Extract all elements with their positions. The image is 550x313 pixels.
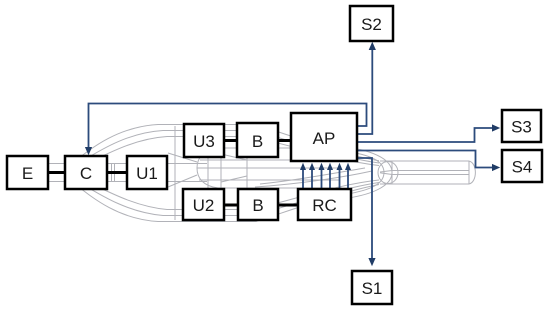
tail dome ellipse bbox=[378, 162, 398, 184]
wire E-C bbox=[48, 171, 65, 174]
wire B-RC bbox=[278, 204, 298, 207]
pod interior seam 3 bbox=[199, 179, 340, 181]
svg-text:RC: RC bbox=[312, 196, 337, 215]
svg-text:C: C bbox=[80, 164, 92, 183]
box S1 bbox=[352, 271, 392, 304]
box S3 bbox=[502, 110, 541, 142]
box S4 bbox=[502, 150, 542, 182]
tail boom cap base vertical bbox=[468, 161, 470, 184]
hull lower line 3 bbox=[74, 176, 379, 210]
svg-text:S2: S2 bbox=[361, 15, 382, 34]
pod diagonal detail 2 bbox=[221, 176, 247, 182]
center pod top bbox=[218, 147, 342, 149]
arrowhead into S1 bbox=[368, 258, 375, 266]
box U1 bbox=[127, 156, 167, 189]
wire U3-B bbox=[224, 139, 237, 142]
tail closure inner arc bbox=[350, 152, 384, 194]
box B top bbox=[237, 123, 278, 157]
svg-text:S4: S4 bbox=[512, 158, 533, 177]
box AP bbox=[291, 113, 357, 161]
box RC bbox=[298, 189, 351, 220]
tail seam lower bbox=[380, 173, 469, 175]
wire U2-B bbox=[224, 204, 238, 207]
aft body seam 1 bbox=[260, 168, 365, 184]
arrowhead into S4 bbox=[492, 164, 500, 171]
hull lower line 1 bbox=[70, 180, 379, 222]
pod interior seam 1 bbox=[200, 159, 340, 161]
pod interior seam 2 bbox=[197, 167, 340, 169]
wire RC to AP 3 bbox=[321, 169, 323, 189]
pod vertical rib 2 bbox=[220, 148, 222, 188]
wire RC to AP 5 bbox=[339, 169, 341, 189]
wire RC to AP 6 bbox=[347, 169, 349, 189]
wire AP to S2 bbox=[357, 49, 372, 134]
arrowhead RC-AP 6 bbox=[345, 163, 351, 170]
arrowhead RC-AP 4 bbox=[327, 163, 333, 170]
pod vertical rib 3 bbox=[246, 148, 248, 188]
hull upper line 3 bbox=[74, 137, 379, 170]
tail boom bottom bbox=[380, 183, 469, 185]
wire RC to AP 4 bbox=[329, 169, 331, 189]
wire B-AP bbox=[278, 139, 291, 142]
wire RC to AP 2 bbox=[311, 169, 313, 189]
tail boom end cap bbox=[469, 161, 475, 184]
arrowhead into S3 bbox=[492, 124, 500, 131]
svg-text:E: E bbox=[22, 164, 33, 183]
hull nose tip arc bbox=[67, 164, 74, 182]
box U2 bbox=[183, 189, 224, 220]
wire RC to AP 1 bbox=[302, 169, 304, 189]
nozzle lower diagonal bbox=[168, 175, 197, 187]
arrowhead into C bbox=[85, 147, 92, 155]
box S2 bbox=[350, 6, 393, 41]
hull nose midline top bbox=[48, 163, 207, 165]
center pod bottom bbox=[218, 187, 342, 189]
svg-text:B: B bbox=[252, 196, 263, 215]
wire C-U1 bbox=[107, 171, 127, 174]
hull upper line 2 bbox=[72, 131, 379, 168]
wire feedback AP to C bbox=[89, 104, 367, 149]
arrowhead RC-AP 1 bbox=[300, 163, 306, 170]
svg-text:AP: AP bbox=[313, 129, 336, 148]
arrowhead RC-AP 5 bbox=[337, 163, 343, 170]
center pod left cap bbox=[197, 148, 218, 188]
svg-text:U1: U1 bbox=[136, 164, 158, 183]
arrowhead RC-AP 3 bbox=[319, 163, 325, 170]
wire AP to S4 bbox=[357, 151, 493, 168]
tail seam upper bbox=[380, 171, 469, 173]
svg-text:U2: U2 bbox=[193, 196, 215, 215]
pod vertical rib 1 bbox=[207, 148, 209, 188]
wire AP to S1 bbox=[357, 158, 372, 259]
hull nose midline bottom bbox=[48, 181, 207, 183]
hull upper line 1 bbox=[70, 125, 379, 166]
box C bbox=[65, 156, 107, 189]
box U3 bbox=[184, 124, 224, 157]
aft body seam 2 bbox=[255, 171, 372, 187]
arrowhead RC-AP 2 bbox=[309, 163, 315, 170]
tail closure outer arc bbox=[345, 147, 392, 199]
frame station vertical bbox=[174, 126, 176, 220]
tail dome vertical bbox=[391, 162, 393, 184]
svg-text:S3: S3 bbox=[511, 118, 532, 137]
arrowhead into S2 bbox=[369, 42, 376, 50]
wire AP to S3 bbox=[357, 128, 493, 142]
pod diagonal detail 1 bbox=[221, 154, 247, 160]
cockpit frame double line a bbox=[111, 164, 113, 182]
svg-text:S1: S1 bbox=[362, 279, 383, 298]
cockpit frame double line b bbox=[114, 164, 116, 182]
hull lower line 2 bbox=[72, 178, 379, 216]
tail boom top bbox=[380, 160, 469, 162]
nozzle upper diagonal bbox=[168, 153, 197, 162]
svg-text:B: B bbox=[252, 132, 263, 151]
svg-text:U3: U3 bbox=[193, 132, 215, 151]
box B bottom bbox=[238, 189, 278, 220]
box E bbox=[7, 156, 48, 189]
